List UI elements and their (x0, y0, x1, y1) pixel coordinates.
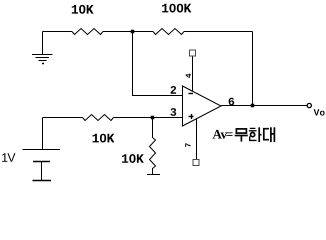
op-amp pin 7 wire (196, 119, 198, 160)
battery V1 1V (23, 150, 61, 181)
pin number 7 (rotated) (185, 143, 190, 147)
wire feedback vertical drop (252, 32, 254, 106)
ground bar (below R4) (147, 174, 160, 176)
pin number 4 (rotated) (186, 74, 191, 78)
wire node B down (152, 118, 154, 138)
wire input rail (battery to pin 3) (43, 117, 83, 119)
wire R3 to pin 3 (114, 117, 183, 119)
hangul syllable DAE (264, 127, 275, 142)
label Vo (314, 109, 325, 115)
pin number 6 (229, 98, 235, 106)
label Av= (213, 130, 233, 139)
label 10K for R3 (93, 134, 115, 143)
label 1V for battery (2, 153, 15, 162)
label 10K for R1 (72, 5, 94, 14)
feedback junction dot on output (251, 104, 255, 108)
wire node A down to pin 2 (133, 32, 183, 96)
resistor R3 10K (input) (83, 115, 114, 121)
op-amp U1 triangle (183, 86, 222, 126)
op-amp plus sign (189, 114, 194, 119)
resistor R2 100K (feedback) (153, 29, 184, 35)
pin 4 terminal square (190, 50, 196, 56)
hangul syllable MU (235, 129, 248, 142)
hangul syllable HAN (249, 127, 262, 142)
pin number 2 (171, 86, 177, 94)
wire battery top (42, 118, 44, 150)
node A junction dot (top rail) (131, 30, 135, 34)
resistor R1 10K (top, input from ground) (72, 29, 103, 35)
label 100K for R2 (162, 4, 191, 13)
op-amp pin 4 wire (192, 57, 194, 92)
op-amp output wire pin 6 (221, 105, 307, 107)
wire R2 to feedback corner (184, 31, 253, 33)
pin 7 terminal square (193, 160, 199, 166)
node B junction dot (input rail) (151, 116, 155, 120)
wire between R1 and node A (103, 31, 153, 33)
Korean text 무한대 (infinity) drawn as strokes (235, 127, 275, 142)
op-amp minus sign (189, 93, 194, 95)
output terminal circle Vo (307, 103, 311, 107)
label 10K for R4 (122, 154, 144, 163)
pin number 3 (170, 108, 176, 116)
ground (top left) (32, 32, 53, 64)
wire top rail left segment (43, 31, 73, 33)
resistor R4 10K (vertical to ground) (150, 138, 156, 175)
